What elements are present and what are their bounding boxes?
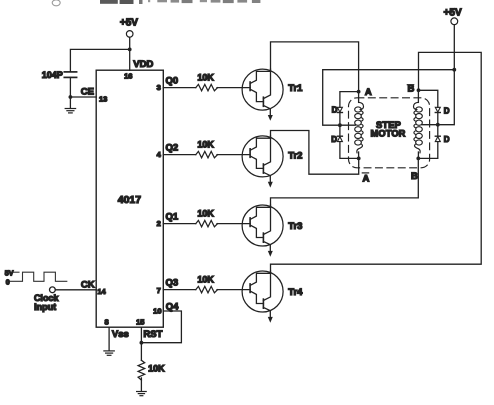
wire RST pin 15 down <box>140 327 142 360</box>
svg-text:+5V: +5V <box>120 18 138 29</box>
capacitor C1 104P <box>64 72 76 78</box>
svg-text:MOTOR: MOTOR <box>371 129 406 139</box>
diode D (left bottom, cathode up) <box>337 136 342 141</box>
label STEP MOTOR <box>371 120 406 139</box>
wire resistor to transistor base <box>217 223 250 225</box>
wire resistor to transistor base <box>217 87 250 89</box>
node left rail junction <box>338 123 342 127</box>
svg-text:5V: 5V <box>5 270 14 277</box>
node A <box>357 87 372 98</box>
node B-bar <box>407 84 420 95</box>
transistor Tr2 (darlington) <box>242 136 283 188</box>
diode D (right top, cathode down) <box>435 107 440 112</box>
svg-text:15: 15 <box>136 318 144 327</box>
svg-text:Q4: Q4 <box>166 301 179 312</box>
right motor winding (B-bar to B) <box>417 90 419 102</box>
svg-text:10K: 10K <box>197 72 214 82</box>
svg-text:10K: 10K <box>197 139 214 149</box>
wire Tr4 collector to B-bar <box>271 52 482 271</box>
wire Q4 pin 10 to RST node <box>141 311 181 343</box>
node: +5V/VDD/cap junction <box>128 48 132 52</box>
svg-text:Tr2: Tr2 <box>288 151 302 162</box>
ground (RST) <box>137 392 147 396</box>
resistor 10K (Q3 base) <box>196 286 218 292</box>
wire Vss pin 8 to ground <box>108 327 110 351</box>
svg-text:10K: 10K <box>197 208 214 218</box>
wire left rail to A-bar <box>340 142 359 159</box>
wire Tr2 collector to A-bar <box>271 131 359 175</box>
transistor Tr3 (darlington) <box>242 205 283 257</box>
wire pin to resistor <box>163 289 196 291</box>
resistor 10K (RST pulldown) <box>138 360 145 380</box>
resistor 10K (Q1 base) <box>196 220 218 226</box>
resistor 10K (Q0 base) <box>196 84 218 90</box>
svg-text:Tr4: Tr4 <box>288 287 303 298</box>
+5V supply terminal (left) <box>120 18 138 38</box>
op-amp U1: IC 4017 decade counter box <box>96 70 163 327</box>
svg-text:16: 16 <box>124 71 132 80</box>
diode D (left top, cathode down) <box>337 107 342 112</box>
wire junction to capacitor <box>70 49 129 71</box>
wire +5V branch to left coil center tap <box>323 70 455 126</box>
cropped caption text fragments (top edge) <box>52 0 260 6</box>
wire capacitor to CE node <box>69 78 71 98</box>
svg-text:A: A <box>363 173 370 184</box>
svg-text:0: 0 <box>6 279 10 286</box>
svg-text:13: 13 <box>99 95 107 104</box>
svg-text:CK: CK <box>81 280 95 291</box>
node: +5V branch junction <box>452 68 456 72</box>
step motor dashed outline <box>349 98 430 168</box>
svg-text:Tr3: Tr3 <box>288 221 302 232</box>
svg-text:2: 2 <box>157 219 161 228</box>
wire A to left diode rail <box>340 92 359 108</box>
left motor winding (A to A-bar) <box>358 92 360 103</box>
left winding center tap <box>340 124 355 126</box>
svg-text:7: 7 <box>157 286 161 295</box>
wire resistor to transistor base <box>217 154 250 156</box>
wire resistor to ground <box>140 378 142 392</box>
svg-text:Input: Input <box>34 302 56 312</box>
svg-text:8: 8 <box>105 318 109 327</box>
svg-text:VDD: VDD <box>133 59 153 70</box>
wire pin to resistor <box>163 223 196 225</box>
clock input terminal <box>50 287 56 293</box>
svg-text:10K: 10K <box>197 274 214 284</box>
node right rail junction <box>436 123 440 127</box>
transistor Tr1 (darlington) <box>242 69 283 121</box>
diode D (right bottom, cathode up) <box>435 136 440 141</box>
wire clock to CK pin 14 <box>55 289 96 291</box>
wire right rail middle <box>437 113 439 137</box>
node: RST/Q4/resistor junction <box>140 341 144 345</box>
wire +5V down to right coil center tap <box>438 25 455 125</box>
resistor 10K (Q2 base) <box>196 151 218 157</box>
svg-text:D: D <box>332 105 338 114</box>
svg-text:104P: 104P <box>42 70 63 80</box>
ground (CE bypass) <box>65 109 75 113</box>
svg-text:Q0: Q0 <box>166 75 179 86</box>
svg-text:D: D <box>444 107 450 116</box>
wire B-bar to right diode rail <box>419 90 438 107</box>
transistor Tr4 (darlington) <box>242 271 283 323</box>
ground (Vss) <box>104 351 114 355</box>
node A-bar <box>357 157 370 185</box>
wire pin to resistor <box>163 87 196 89</box>
svg-text:Tr1: Tr1 <box>288 83 303 94</box>
svg-text:A: A <box>365 87 372 98</box>
svg-text:B: B <box>411 171 418 182</box>
svg-text:10K: 10K <box>148 364 165 374</box>
node B <box>411 157 420 183</box>
svg-text:4017: 4017 <box>118 194 142 206</box>
right winding center tap <box>422 124 438 126</box>
svg-text:B: B <box>408 84 415 95</box>
+5V supply terminal (right) <box>444 8 462 25</box>
wire Tr1 collector to A <box>271 42 359 92</box>
wire CE node to ground <box>69 97 71 108</box>
svg-text:Q3: Q3 <box>166 277 179 288</box>
svg-text:CE: CE <box>81 87 94 98</box>
wire +5V to VDD <box>129 37 131 70</box>
wire right rail to B <box>418 142 438 159</box>
clock waveform <box>10 272 67 281</box>
svg-text:Vss: Vss <box>112 329 129 340</box>
svg-text:Q1: Q1 <box>166 211 179 222</box>
svg-text:D: D <box>444 135 450 144</box>
wire resistor to transistor base <box>217 289 250 291</box>
svg-text:Q2: Q2 <box>166 142 179 153</box>
svg-text:10: 10 <box>153 307 161 316</box>
wire left rail middle <box>339 113 341 137</box>
svg-text:+5V: +5V <box>444 8 462 19</box>
svg-text:14: 14 <box>97 287 106 296</box>
svg-text:RST: RST <box>143 329 162 340</box>
wire Tr3 collector to B <box>271 159 419 206</box>
wire CE node to pin 13 <box>70 96 96 98</box>
wire pin to resistor <box>163 154 196 156</box>
svg-text:3: 3 <box>157 83 161 92</box>
node: CE/cap/ground junction <box>69 95 73 99</box>
svg-text:D: D <box>331 135 337 144</box>
